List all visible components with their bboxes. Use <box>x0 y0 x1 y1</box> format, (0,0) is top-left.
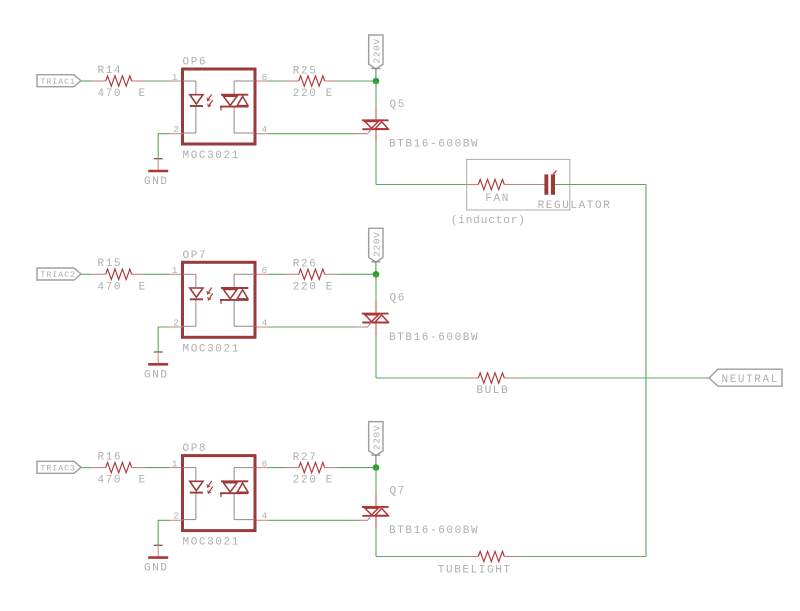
wire R16 to OP8 pin 1 <box>145 467 170 469</box>
svg-text:220 E: 220 E <box>293 475 334 487</box>
wire Q6 to BULB <box>376 377 465 379</box>
supply flag 220V <box>369 422 383 456</box>
svg-text:470 E: 470 E <box>98 88 147 100</box>
svg-text:6: 6 <box>262 458 268 469</box>
svg-text:220V: 220V <box>371 231 382 256</box>
svg-text:TRIAC3: TRIAC3 <box>41 464 76 473</box>
capacitor REGULATOR <box>544 171 556 195</box>
svg-text:FAN: FAN <box>485 193 510 205</box>
svg-text:TUBELIGHT: TUBELIGHT <box>438 565 512 577</box>
optocoupler OP8 MOC3021 <box>170 456 269 531</box>
wire node to Q7 MT2 <box>375 468 377 494</box>
resistor R15 <box>93 269 145 279</box>
svg-text:Q5: Q5 <box>390 99 406 111</box>
svg-text:REGULATOR: REGULATOR <box>538 200 612 212</box>
wire 220V flag to node <box>375 455 377 467</box>
triac Q7 <box>355 494 389 529</box>
svg-text:4: 4 <box>262 317 268 328</box>
svg-text:4: 4 <box>262 511 268 522</box>
wire Q6 MT1 down <box>375 335 377 378</box>
svg-text:TRIAC2: TRIAC2 <box>41 271 76 280</box>
svg-text:1: 1 <box>172 265 178 276</box>
wire OP6 pin 4 to Q5 gate <box>268 133 355 135</box>
triac Q6 <box>355 301 389 336</box>
wire R14 to OP6 pin 1 <box>145 80 170 82</box>
svg-text:BULB: BULB <box>476 385 509 397</box>
wire node to Q5 MT2 <box>375 81 377 107</box>
svg-text:GND: GND <box>144 563 169 575</box>
resistor R25 <box>286 76 338 86</box>
wire OP8 pin 4 to Q7 gate <box>268 519 355 521</box>
resistor R16 <box>93 462 145 472</box>
supply flag 220V <box>369 228 383 262</box>
wire TRIAC2 to R15 <box>81 273 93 275</box>
optocoupler OP7 MOC3021 <box>170 262 269 337</box>
wire BULB to NEUTRAL <box>517 377 709 379</box>
svg-text:(inductor): (inductor) <box>451 215 526 227</box>
svg-text:470 E: 470 E <box>98 475 147 487</box>
svg-text:4: 4 <box>262 124 268 135</box>
svg-text:1: 1 <box>172 458 178 469</box>
wire Q7 MT1 down <box>375 529 377 557</box>
svg-text:Q7: Q7 <box>390 486 406 498</box>
svg-text:Q6: Q6 <box>390 292 406 304</box>
wire 220V flag to node <box>375 262 377 274</box>
svg-text:1: 1 <box>172 72 178 83</box>
svg-text:MOC3021: MOC3021 <box>183 537 240 549</box>
resistor R26 <box>286 269 338 279</box>
svg-text:220 E: 220 E <box>293 281 334 293</box>
wire Q5 MT1 down <box>375 142 377 184</box>
wire R25 to 220V node <box>338 80 376 82</box>
wire OP7 pin 2 to GND <box>170 326 183 328</box>
resistor FAN <box>465 179 517 189</box>
resistor R27 <box>286 462 338 472</box>
triac Q5 <box>355 107 389 142</box>
junction node 220V-2 <box>373 271 380 278</box>
svg-text:OP8: OP8 <box>183 443 208 455</box>
svg-text:MOC3021: MOC3021 <box>183 343 240 355</box>
wire OP7 pin 4 to Q6 gate <box>268 326 355 328</box>
junction node 220V-3 <box>373 464 380 471</box>
svg-text:OP7: OP7 <box>183 250 208 262</box>
wire 220V flag to node <box>375 69 377 81</box>
svg-text:GND: GND <box>144 369 169 381</box>
ground GND <box>148 159 168 171</box>
load box FAN/REGULATOR <box>467 159 570 210</box>
svg-text:220V: 220V <box>371 38 382 63</box>
wire node to Q6 MT2 <box>375 274 377 300</box>
wire REGULATOR to right bus <box>555 184 646 186</box>
net flag TRIAC2 <box>37 268 81 280</box>
wire R26 to 220V node <box>338 273 376 275</box>
wire TRIAC3 to R16 <box>81 467 93 469</box>
svg-text:6: 6 <box>262 72 268 83</box>
wire R15 to OP7 pin 1 <box>145 273 170 275</box>
wire OP6 pin 6 to R25 <box>268 80 286 82</box>
supply flag 220V <box>369 35 383 69</box>
wire FAN to REGULATOR <box>517 184 544 186</box>
svg-text:220 E: 220 E <box>293 88 334 100</box>
wire OP8 pin 2 to GND <box>170 519 183 521</box>
wire TUBELIGHT to right bus <box>517 556 646 558</box>
svg-text:R25: R25 <box>293 65 318 77</box>
resistor BULB <box>465 373 517 383</box>
svg-text:MOC3021: MOC3021 <box>183 150 240 162</box>
wire TRIAC1 to R14 <box>81 80 93 82</box>
wire R27 to 220V node <box>338 467 376 469</box>
svg-text:BTB16-600BW: BTB16-600BW <box>389 139 479 151</box>
svg-text:6: 6 <box>262 265 268 276</box>
svg-text:TRIAC1: TRIAC1 <box>41 78 76 87</box>
resistor R14 <box>93 76 145 86</box>
svg-text:R14: R14 <box>98 65 123 77</box>
svg-text:GND: GND <box>144 176 169 188</box>
svg-text:OP6: OP6 <box>183 57 208 69</box>
wire OP8 pin 6 to R27 <box>268 467 286 469</box>
svg-text:470 E: 470 E <box>98 281 147 293</box>
svg-text:R27: R27 <box>293 452 318 464</box>
net flag TRIAC3 <box>37 461 81 473</box>
svg-text:R16: R16 <box>98 451 123 463</box>
svg-text:R26: R26 <box>293 259 318 271</box>
net flag TRIAC1 <box>37 75 81 87</box>
svg-text:220V: 220V <box>371 425 382 450</box>
wire OP6 pin 2 to GND <box>170 133 183 135</box>
svg-text:BTB16-600BW: BTB16-600BW <box>389 332 479 344</box>
wire right bus vertical <box>645 185 647 557</box>
resistor TUBELIGHT <box>465 551 517 561</box>
wire Q5 to FAN <box>376 184 465 186</box>
wire Q7 to TUBELIGHT <box>376 556 465 558</box>
ground GND <box>148 352 168 364</box>
svg-text:BTB16-600BW: BTB16-600BW <box>389 525 479 537</box>
ground GND <box>148 545 168 557</box>
net flag NEUTRAL <box>709 369 782 386</box>
optocoupler OP6 MOC3021 <box>170 69 269 144</box>
svg-text:R15: R15 <box>98 258 123 270</box>
junction node 220V-1 <box>373 78 380 85</box>
svg-text:NEUTRAL: NEUTRAL <box>722 374 779 386</box>
wire OP7 pin 6 to R26 <box>268 273 286 275</box>
